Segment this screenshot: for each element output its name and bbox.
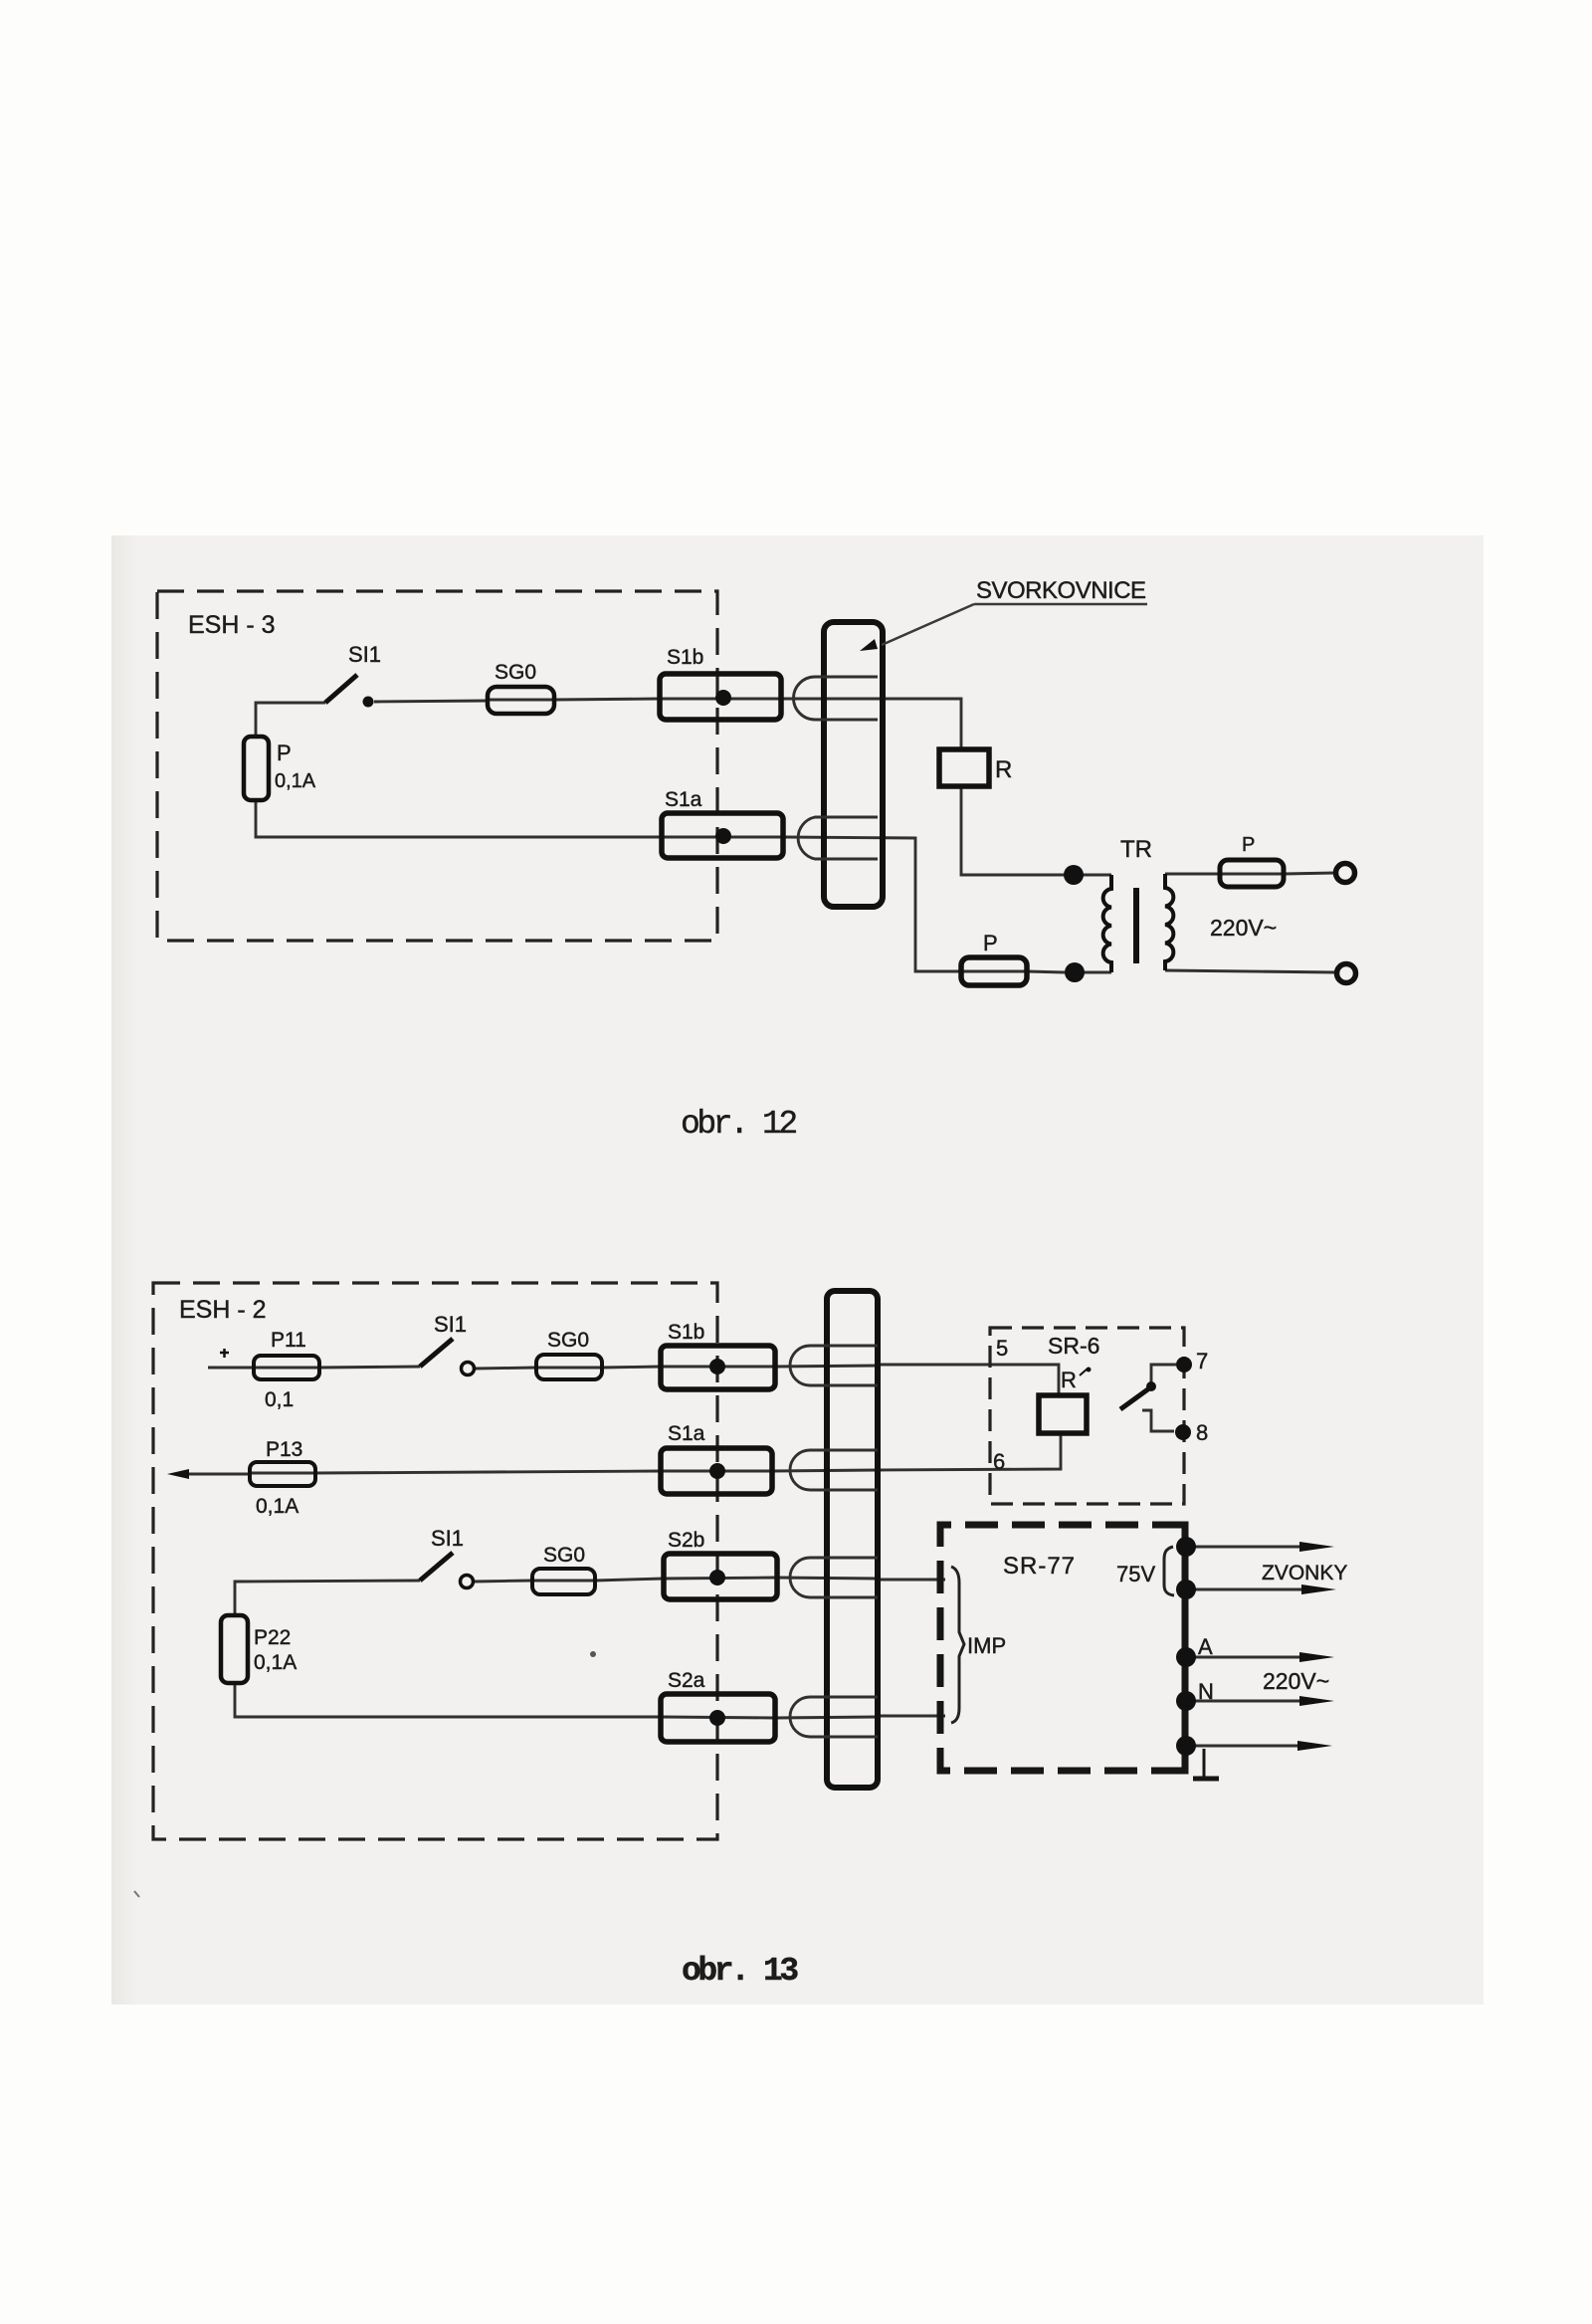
svg-text:R: R — [995, 756, 1012, 783]
svg-text:SR-6: SR-6 — [1048, 1333, 1099, 1359]
svg-text:6: 6 — [993, 1449, 1005, 1474]
svg-text:P: P — [1242, 834, 1255, 856]
svg-text:P13: P13 — [266, 1438, 302, 1461]
svg-text:S1b: S1b — [667, 646, 703, 669]
svg-text:obr. 12: obr. 12 — [681, 1106, 796, 1143]
svg-text:N: N — [1198, 1679, 1214, 1704]
svg-text:P: P — [277, 740, 292, 765]
svg-text:S2a: S2a — [668, 1669, 705, 1692]
svg-text:0,1: 0,1 — [265, 1388, 294, 1411]
svg-text:SG0: SG0 — [547, 1329, 589, 1352]
svg-text:75V: 75V — [1116, 1562, 1155, 1586]
svg-text:P22: P22 — [254, 1626, 291, 1649]
svg-text:R: R — [1061, 1368, 1077, 1392]
svg-text:7: 7 — [1196, 1349, 1208, 1373]
svg-text:SI1: SI1 — [431, 1526, 464, 1551]
svg-text:ESH - 3: ESH - 3 — [188, 611, 276, 639]
svg-text:220V~: 220V~ — [1210, 915, 1277, 941]
svg-text:SG0: SG0 — [543, 1544, 585, 1567]
svg-text:SR-77: SR-77 — [1003, 1553, 1076, 1580]
svg-text:S1b: S1b — [668, 1321, 704, 1344]
svg-text:ZVONKY: ZVONKY — [1262, 1562, 1347, 1585]
svg-text:SG0: SG0 — [495, 661, 536, 684]
svg-text:TR: TR — [1120, 836, 1152, 863]
svg-text:S1a: S1a — [665, 788, 702, 811]
svg-text:SI1: SI1 — [348, 642, 381, 667]
svg-text:S1a: S1a — [668, 1422, 705, 1445]
svg-text:obr. 13: obr. 13 — [682, 1953, 798, 1990]
svg-text:ESH - 2: ESH - 2 — [179, 1296, 267, 1324]
svg-text:5: 5 — [996, 1336, 1008, 1361]
svg-text:SI1: SI1 — [434, 1312, 467, 1337]
svg-text:IMP: IMP — [967, 1633, 1006, 1658]
svg-text:0,1A: 0,1A — [256, 1495, 298, 1518]
svg-text:P: P — [983, 931, 998, 955]
svg-text:P11: P11 — [271, 1329, 306, 1352]
svg-text:A: A — [1198, 1634, 1213, 1659]
svg-text:0,1A: 0,1A — [275, 770, 316, 792]
svg-text:220V~: 220V~ — [1263, 1668, 1329, 1694]
svg-text:SVORKOVNICE: SVORKOVNICE — [976, 577, 1146, 604]
svg-text:8: 8 — [1196, 1420, 1208, 1445]
svg-text:0,1A: 0,1A — [254, 1651, 297, 1674]
svg-text:S2b: S2b — [668, 1529, 704, 1552]
